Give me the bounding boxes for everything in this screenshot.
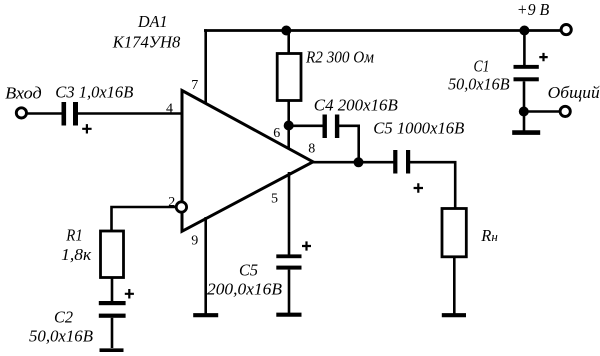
svg-text:50,0x16В: 50,0x16В [29, 327, 93, 346]
svg-text:C3 1,0x16В: C3 1,0x16В [55, 83, 133, 102]
wire pin 5 [288, 172, 291, 255]
wire pin 2 [112, 207, 177, 231]
wire pin 9 [204, 217, 207, 314]
resistor R1 [101, 231, 124, 278]
ground C2 [100, 348, 124, 352]
plus C2 [125, 289, 134, 299]
svg-text:R2 300 Ом: R2 300 Ом [305, 48, 374, 67]
svg-text:2: 2 [168, 195, 175, 210]
wire C3 to pin 4 [78, 112, 182, 115]
ground C5 200 [276, 313, 301, 317]
wire C2 to ground [111, 318, 114, 348]
junction dot rail R2 [281, 26, 291, 36]
wire pin 7 vertical [204, 29, 207, 104]
pin 2 inversion circle [176, 202, 186, 212]
wire rail to C1 [523, 31, 526, 66]
wire C1 to ground [523, 81, 526, 131]
svg-text:C4 200x16В: C4 200x16В [314, 96, 398, 115]
wire rail to R2 [287, 31, 290, 54]
terminal Вход [16, 108, 26, 118]
resistor R2 [277, 54, 301, 101]
wire R2 to pin 6 edge [287, 101, 290, 150]
svg-text:8: 8 [308, 142, 315, 157]
terminal +9V [561, 25, 571, 35]
capacitor C1 [514, 65, 539, 69]
svg-text:1,8к: 1,8к [61, 245, 91, 264]
svg-text:5: 5 [271, 191, 278, 206]
capacitor C2 [99, 301, 126, 305]
ground C1 [512, 130, 540, 135]
wire +9V top rail [204, 29, 561, 32]
junction dot Общий [519, 107, 529, 117]
svg-text:К174УН8: К174УН8 [112, 33, 181, 52]
ground pin 9 [193, 313, 218, 317]
capacitor C5 200 [276, 254, 301, 258]
svg-text:Общий: Общий [548, 83, 600, 102]
capacitor C4 [323, 115, 327, 139]
svg-text:R1: R1 [65, 225, 82, 244]
svg-text:C5: C5 [239, 261, 258, 280]
wire pin 8 output [313, 161, 394, 164]
svg-text:C5 1000x16В: C5 1000x16В [373, 119, 464, 138]
capacitor C3 [62, 102, 67, 126]
wire C5 1000 to Rн [410, 162, 455, 208]
svg-text:7: 7 [191, 78, 198, 93]
capacitor C5 1000 [393, 150, 397, 174]
wire Rн to ground [453, 257, 456, 314]
svg-text:DA1: DA1 [137, 12, 167, 31]
svg-text:4: 4 [166, 102, 173, 117]
svg-text:+9 В: +9 В [517, 0, 550, 19]
ground Rн [442, 313, 466, 317]
plus C5 200 [302, 241, 311, 250]
svg-text:Rн: Rн [480, 226, 498, 245]
plus C3 [82, 124, 91, 133]
op-amp DA1 [182, 91, 313, 232]
wire C4 to output node [339, 126, 359, 162]
svg-text:C2: C2 [54, 308, 73, 327]
wire C5 200 to ground [288, 270, 291, 313]
svg-text:200,0x16В: 200,0x16В [207, 279, 282, 298]
terminal Общий [560, 106, 570, 116]
svg-text:C1: C1 [474, 56, 490, 75]
svg-text:9: 9 [191, 234, 198, 249]
wire to Общий terminal [524, 110, 560, 113]
svg-text:50,0x16В: 50,0x16В [448, 74, 510, 93]
plus C1 [539, 53, 547, 61]
svg-text:6: 6 [273, 126, 280, 141]
wire input to C3 [27, 112, 63, 115]
resistor Rн [442, 209, 466, 257]
wire pin6 to C4 [289, 125, 323, 128]
wire R1 to C2 [111, 278, 114, 302]
junction dot C1 top [519, 26, 529, 36]
junction dot output [354, 157, 364, 167]
svg-text:Вход: Вход [5, 84, 42, 103]
plus C5 1000 [414, 183, 423, 192]
junction dot pin 6 [284, 121, 294, 131]
